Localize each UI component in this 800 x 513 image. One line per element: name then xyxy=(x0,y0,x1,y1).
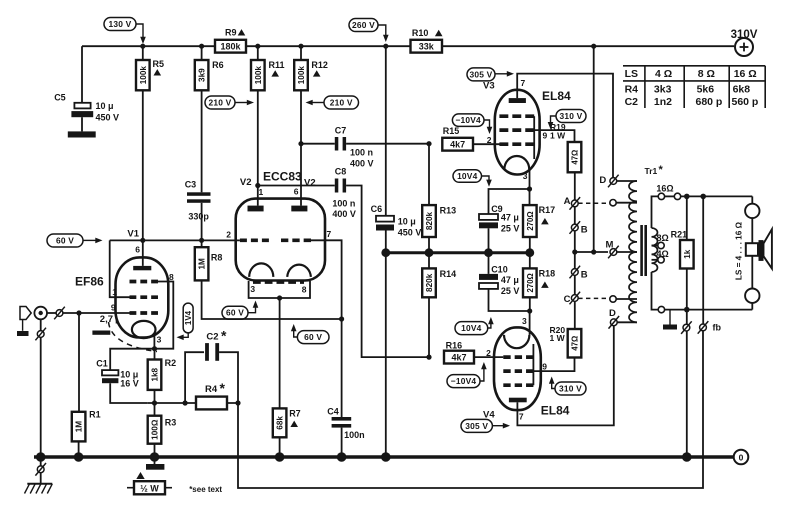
tube V4 grid g3 dashes xyxy=(503,383,533,387)
input plug symbol xyxy=(20,307,31,320)
wire V1 pin 8 to cathode node xyxy=(155,282,174,349)
tube V2 anode bar left pin 1 xyxy=(248,206,264,212)
connector secondary bottom xyxy=(658,306,664,312)
node R7 at bus xyxy=(275,452,285,462)
table LS R4 C2 values xyxy=(623,65,765,67)
svg-text:100 n: 100 n xyxy=(332,199,355,209)
wire C8 line from V2 pin1 xyxy=(258,185,335,187)
svg-text:C8: C8 xyxy=(335,167,347,177)
wire B to C xyxy=(574,275,576,294)
label 60 V at pin7 line xyxy=(297,331,329,344)
tube V2 heater dashes xyxy=(253,281,304,284)
svg-text:1: 1 xyxy=(112,287,117,297)
node R4 C2 right / feedback xyxy=(235,400,240,405)
svg-text:16 V: 16 V xyxy=(120,379,139,389)
svg-text:2: 2 xyxy=(226,229,231,239)
input jack socket xyxy=(34,307,47,320)
svg-text:D: D xyxy=(609,308,616,319)
resistor R2 1k8 xyxy=(154,349,156,360)
label -10V4 at V4 grid xyxy=(447,375,480,388)
svg-text:V1: V1 xyxy=(127,229,139,240)
wire V4 anode pin 7 to D xyxy=(517,326,613,426)
svg-text:25 V: 25 V xyxy=(501,224,520,234)
svg-text:25 V: 25 V xyxy=(501,286,520,296)
resistor R7 68k xyxy=(273,408,287,437)
wire V3 cathode to C9 xyxy=(489,189,530,214)
resistor R20 47 ohm 1W xyxy=(568,329,582,358)
node grid / R1 xyxy=(76,310,81,315)
svg-text:C4: C4 xyxy=(327,407,339,417)
svg-text:C: C xyxy=(564,294,571,305)
wire C to R20 xyxy=(574,301,576,329)
wire ground line down to bus xyxy=(385,253,387,457)
svg-text:½ W: ½ W xyxy=(140,484,159,494)
svg-text:R21: R21 xyxy=(671,229,688,239)
svg-text:1k8: 1k8 xyxy=(151,367,160,381)
wire C7 to R13 node xyxy=(346,143,429,145)
svg-text:R4: R4 xyxy=(205,384,218,395)
svg-text:C10: C10 xyxy=(491,265,508,275)
tube V4 cathode arc xyxy=(504,335,529,348)
tube V1 grid dashes pin 9 row xyxy=(130,311,159,315)
wire V1 pin 1 up to anode node xyxy=(110,240,130,297)
connector C xyxy=(571,295,578,302)
wire primary bottom to D xyxy=(617,321,637,323)
node 260V rail junction xyxy=(383,44,388,49)
node V2 pin6 / C7 junction xyxy=(298,141,303,146)
node C2 left xyxy=(183,400,188,405)
resistor R5 100k xyxy=(142,46,144,60)
svg-text:LS: LS xyxy=(625,68,638,80)
svg-text:210 V: 210 V xyxy=(209,98,232,108)
svg-text:8: 8 xyxy=(169,272,174,282)
svg-text:47Ω: 47Ω xyxy=(571,150,580,165)
svg-text:100k: 100k xyxy=(254,66,263,85)
svg-text:R17: R17 xyxy=(539,205,556,215)
resistor R12 100k xyxy=(300,46,302,60)
svg-text:10 μ: 10 μ xyxy=(398,217,416,227)
tube V2 grid dashes left xyxy=(240,238,269,242)
svg-text:3: 3 xyxy=(523,171,528,181)
svg-text:M: M xyxy=(606,239,614,250)
svg-text:3k9: 3k9 xyxy=(198,68,207,82)
connector D upper xyxy=(610,178,617,185)
svg-text:V3: V3 xyxy=(483,81,495,92)
wire R12 to V2 anode pin 6 xyxy=(300,90,302,143)
node V3 cathode junction xyxy=(527,186,532,191)
connector A xyxy=(571,200,578,207)
svg-text:7: 7 xyxy=(327,229,332,239)
node V1 anode / R5 xyxy=(140,238,145,243)
capacitor C2* feedback xyxy=(185,352,204,403)
svg-text:10V4: 10V4 xyxy=(457,171,478,181)
ground bar pins 1 2 7 of V1 xyxy=(92,331,110,335)
resistor R3 100 ohm xyxy=(154,403,156,416)
svg-text:*: * xyxy=(220,380,226,396)
svg-text:R1: R1 xyxy=(89,410,101,420)
svg-text:R11: R11 xyxy=(269,60,285,70)
resistor R19 47 ohm 1W xyxy=(568,142,582,172)
connector M center tap xyxy=(610,249,617,256)
wire sleeve to ground bus xyxy=(40,337,42,457)
tube V2 grid dashes right xyxy=(281,238,311,242)
svg-text:60 V: 60 V xyxy=(56,236,74,246)
svg-text:10V4: 10V4 xyxy=(461,323,482,333)
label 210 V right xyxy=(324,96,359,109)
svg-text:R12: R12 xyxy=(311,60,328,70)
svg-text:130 V: 130 V xyxy=(109,19,132,29)
wire C1 to bottom line xyxy=(110,383,148,403)
wire R6 to C3 xyxy=(201,90,203,192)
svg-text:310 V: 310 V xyxy=(559,384,582,394)
earth ground symbol xyxy=(27,483,52,485)
tube V1 cathode loop pin 3 xyxy=(132,321,156,338)
svg-text:4 Ω: 4 Ω xyxy=(655,68,672,80)
wire B+ top rail xyxy=(82,45,734,47)
node R14 at V4 grid line xyxy=(426,355,431,360)
tube V1 grid dashes g1 pin 1 row xyxy=(130,295,159,299)
svg-text:100k: 100k xyxy=(139,66,148,85)
svg-text:180k: 180k xyxy=(220,41,241,51)
tube V2 cathode arc right pin 8 xyxy=(287,265,311,277)
svg-text:6: 6 xyxy=(294,187,299,197)
svg-text:450 V: 450 V xyxy=(96,113,120,123)
node V1 cathode junction xyxy=(152,346,157,351)
svg-text:R14: R14 xyxy=(440,269,457,279)
svg-text:450 V: 450 V xyxy=(398,228,422,238)
wire bottom line xyxy=(148,402,238,404)
node V2 pin1 / C8 junction xyxy=(255,183,260,188)
tube V3 EL84 envelope xyxy=(495,90,540,175)
resistor R16 4k7 xyxy=(444,351,474,364)
svg-text:8Ω: 8Ω xyxy=(657,233,669,243)
svg-text:4k7: 4k7 xyxy=(450,139,465,149)
transformer primary winding xyxy=(629,181,637,322)
svg-text:R8: R8 xyxy=(211,253,223,263)
svg-text:210 V: 210 V xyxy=(330,98,353,108)
svg-text:1V4: 1V4 xyxy=(184,310,193,325)
tube V4 EL84 envelope xyxy=(494,327,541,410)
resistor R1 1M xyxy=(78,313,80,412)
connector slash input signal xyxy=(56,310,63,317)
svg-text:9: 9 xyxy=(543,131,548,141)
svg-text:4Ω: 4Ω xyxy=(657,249,669,259)
svg-text:7: 7 xyxy=(521,78,526,88)
svg-text:R3: R3 xyxy=(165,418,177,428)
svg-text:R2: R2 xyxy=(165,358,177,368)
node rail junction R11 xyxy=(255,44,260,49)
wire B to M node xyxy=(574,231,576,252)
resistor R11 100k xyxy=(257,46,259,60)
svg-text:100k: 100k xyxy=(297,66,306,85)
label 60 V at V2 cathode xyxy=(222,306,248,319)
tube V4 grid g1 dashes xyxy=(503,355,533,359)
node V4 cathode junction xyxy=(527,308,532,313)
svg-text:*: * xyxy=(221,328,227,344)
resistor R15 4k7 xyxy=(442,138,473,151)
chassis ground at secondary xyxy=(669,310,671,325)
tube V3 anode bar pin 7 xyxy=(509,98,526,103)
label -10V4 at V3 grid xyxy=(452,114,484,127)
tube V3 g3 to cathode link xyxy=(533,116,535,159)
wire V1 cathode stem xyxy=(153,333,155,348)
connector B lower xyxy=(571,269,578,276)
svg-text:R7: R7 xyxy=(289,409,301,419)
resistor R9 180k xyxy=(215,40,246,53)
node ground line R17 R18 xyxy=(525,248,534,257)
svg-text:9: 9 xyxy=(542,361,547,371)
node R21 bottom xyxy=(684,307,690,313)
wire R5 to V1 anode xyxy=(142,90,144,240)
tube V2 ECC83 envelope xyxy=(236,199,325,281)
tube V3 cathode arc xyxy=(504,156,529,169)
tube V4 anode bar pin 7 xyxy=(509,398,527,403)
svg-text:680 p: 680 p xyxy=(696,96,723,108)
capacitor C7 100n 400V xyxy=(335,137,339,151)
node rail junction R6 xyxy=(199,44,204,49)
node C6 at bus xyxy=(381,452,391,462)
wire bottom line to speaker xyxy=(665,309,753,311)
resistor R4* xyxy=(196,397,227,410)
node R21 ground at bus xyxy=(682,452,692,462)
svg-text:6: 6 xyxy=(135,244,140,254)
svg-text:C6: C6 xyxy=(371,204,383,214)
wire local ground line xyxy=(386,251,530,254)
wire secondary top to 16 ohm xyxy=(652,196,659,228)
svg-text:V2: V2 xyxy=(304,178,316,189)
wire V2 pin6 to C7 xyxy=(301,143,335,145)
svg-text:R13: R13 xyxy=(440,206,457,216)
label 310 V at V3 screen xyxy=(556,110,586,123)
svg-text:47 μ: 47 μ xyxy=(501,275,519,285)
svg-text:270Ω: 270Ω xyxy=(526,211,535,230)
wire V2 cathode to R7 xyxy=(279,298,281,408)
connector slash input sleeve xyxy=(37,331,44,338)
legend half watt resistor xyxy=(136,472,144,479)
resistor R10 33k xyxy=(411,40,443,53)
svg-text:820k: 820k xyxy=(425,211,434,230)
connector 16 ohm pair xyxy=(658,193,664,199)
svg-text:LS = 4 . . . 16 Ω: LS = 4 . . . 16 Ω xyxy=(735,221,744,280)
node rail junction to M center tap xyxy=(591,44,596,49)
svg-text:16 Ω: 16 Ω xyxy=(734,68,757,80)
svg-text:33k: 33k xyxy=(419,41,435,51)
svg-text:100n: 100n xyxy=(344,430,365,440)
node C4 at bus xyxy=(337,452,347,462)
wire V4 pin 9 screen xyxy=(531,358,574,372)
svg-text:820k: 820k xyxy=(425,273,434,292)
svg-text:310 V: 310 V xyxy=(560,111,583,121)
svg-text:7: 7 xyxy=(519,411,524,421)
svg-text:400 V: 400 V xyxy=(332,209,356,219)
wire junction to C4 xyxy=(341,319,343,417)
node R2 bottom xyxy=(152,400,157,405)
svg-text:V2: V2 xyxy=(240,177,252,188)
wire V3 anode pin 7 to D xyxy=(517,74,613,178)
node feedback tap xyxy=(700,194,706,200)
svg-text:1 W: 1 W xyxy=(550,333,566,343)
svg-text:100Ω: 100Ω xyxy=(151,419,160,440)
svg-text:R4: R4 xyxy=(625,84,639,96)
resistor R6 3k9 xyxy=(201,46,203,60)
link C dashed xyxy=(578,297,610,299)
svg-text:B: B xyxy=(581,269,588,280)
transformer secondary winding xyxy=(652,228,658,272)
wire 16 ohm line to speaker xyxy=(681,195,753,197)
svg-text:−10V4: −10V4 xyxy=(455,115,481,125)
wire V2 cathode pins 3 8 bracket xyxy=(249,281,310,298)
svg-text:47Ω: 47Ω xyxy=(571,336,580,351)
svg-text:60 V: 60 V xyxy=(304,332,322,342)
speaker terminal top xyxy=(745,204,759,218)
wire D to primary top xyxy=(617,180,637,182)
svg-text:1M: 1M xyxy=(198,258,207,270)
tube V2 cathode arc left pin 3 xyxy=(249,263,273,277)
wire V3 pin 9 screen xyxy=(534,130,574,142)
node R1 at bus xyxy=(74,452,84,462)
connector D lower xyxy=(610,319,617,326)
tube V4 grid g2 dashes xyxy=(503,369,533,373)
svg-text:C1: C1 xyxy=(96,359,108,369)
svg-text:B: B xyxy=(581,225,588,236)
svg-text:EF86: EF86 xyxy=(75,274,104,288)
node input sleeve at bus xyxy=(36,452,46,462)
tube V4 g3 to cathode link xyxy=(532,344,534,385)
node 130V rail junction R5 xyxy=(140,44,145,49)
svg-text:C2: C2 xyxy=(206,332,218,343)
capacitor C10 47u 25V xyxy=(488,253,490,274)
wire M line xyxy=(575,251,608,253)
svg-text:9: 9 xyxy=(111,302,116,312)
wire V1 anode line to V2 grid pin 2 xyxy=(110,239,240,241)
wire V2 anode pin1 stem xyxy=(257,186,259,206)
tube V1 anode bar pin 6 xyxy=(133,266,151,270)
wire 260V down to C6 xyxy=(385,46,387,216)
svg-text:C3: C3 xyxy=(185,180,197,190)
svg-text:16Ω: 16Ω xyxy=(656,184,673,194)
svg-text:400 V: 400 V xyxy=(350,159,374,169)
node V1 anode line / R8 C3 xyxy=(199,238,204,243)
resistor R14 820k xyxy=(428,253,430,269)
node ground line C9 C10 xyxy=(484,248,493,257)
connector slash fb xyxy=(700,324,707,331)
svg-text:2: 2 xyxy=(487,135,492,145)
svg-text:330p: 330p xyxy=(188,212,209,222)
wire V2 pin 7 down xyxy=(311,240,342,319)
svg-text:1M: 1M xyxy=(75,421,84,433)
svg-text:R6: R6 xyxy=(212,60,224,70)
connector slash below bus xyxy=(40,457,42,466)
node ground line C6 xyxy=(381,248,390,257)
capacitor C4 100n xyxy=(332,417,352,421)
connector slash R21 ground xyxy=(686,310,688,324)
label 260 V xyxy=(349,19,378,32)
speaker symbol xyxy=(751,218,753,243)
wire V2 pin 6 stem xyxy=(300,144,302,206)
label 305 V at V4 xyxy=(461,419,492,432)
svg-text:3: 3 xyxy=(522,316,527,326)
svg-text:6k8: 6k8 xyxy=(733,84,751,96)
node ladder at M wire xyxy=(572,249,577,254)
wire secondary bottom xyxy=(652,272,659,310)
svg-text:260 V: 260 V xyxy=(352,20,375,30)
label 10V4 at V4 cathode xyxy=(455,322,488,335)
svg-text:1 W: 1 W xyxy=(550,130,566,140)
capacitor C3 330p xyxy=(187,192,211,196)
wire R15 to V3 pin 2 xyxy=(473,143,500,145)
speaker terminal bottom xyxy=(751,256,753,289)
wire V3 cathode stem xyxy=(529,169,531,189)
node pin7 R8 C4 junction xyxy=(339,316,344,321)
wire C8 to V4 grid line xyxy=(346,186,429,358)
resistor R21 1k xyxy=(686,196,688,240)
svg-text:C5: C5 xyxy=(54,93,66,103)
label 310 V at V4 screen xyxy=(555,382,586,395)
wire feedback line xyxy=(702,196,704,323)
svg-text:R5: R5 xyxy=(153,59,165,69)
tube V3 grid g3 dashes xyxy=(499,114,534,118)
node V2 cathode junction xyxy=(277,295,282,300)
wire R19 to A xyxy=(574,172,576,200)
tap 8 ohm xyxy=(652,245,658,247)
label 10V4 at V3 cathode xyxy=(453,170,482,183)
connector link lower tap xyxy=(610,296,616,302)
svg-text:ECC83: ECC83 xyxy=(263,170,302,184)
capacitor C6 10u 450V xyxy=(376,216,394,222)
svg-text:R16: R16 xyxy=(446,340,463,350)
tube V1 shield dashed arc xyxy=(109,322,158,352)
svg-text:A: A xyxy=(564,196,571,207)
svg-text:1n2: 1n2 xyxy=(654,96,672,108)
svg-text:3k3: 3k3 xyxy=(654,84,672,96)
capacitor C5 10u 450V xyxy=(81,46,83,102)
chassis bar below R3 xyxy=(154,457,156,464)
transformer core xyxy=(640,225,643,276)
svg-text:60 V: 60 V xyxy=(226,308,244,318)
svg-text:305 V: 305 V xyxy=(465,421,488,431)
wire jack sleeve down xyxy=(40,319,42,330)
link A dashed xyxy=(578,202,610,204)
svg-text:R18: R18 xyxy=(539,269,556,279)
svg-text:100 n: 100 n xyxy=(350,148,373,158)
node M wire junction xyxy=(591,249,596,254)
svg-text:270Ω: 270Ω xyxy=(526,273,535,292)
capacitor C9 47u 25V xyxy=(479,214,498,220)
svg-text:*see text: *see text xyxy=(189,485,222,494)
wire C3 to V1 anode node xyxy=(201,203,203,241)
svg-text:47 μ: 47 μ xyxy=(501,213,519,223)
tube V3 grid g2 dashes xyxy=(499,128,534,132)
svg-text:3: 3 xyxy=(250,284,255,294)
svg-text:−10V4: −10V4 xyxy=(451,376,477,386)
svg-text:C2: C2 xyxy=(625,96,639,108)
tube V1 grid dashes g2 pin 8 row xyxy=(130,280,159,284)
tube V3 grid g1 dashes xyxy=(499,142,534,146)
wire R8 to V2 grid pin 7 line xyxy=(202,280,342,319)
svg-text:8 Ω: 8 Ω xyxy=(698,68,715,80)
svg-text:8: 8 xyxy=(302,285,307,295)
wire feedback to R4 node xyxy=(238,331,703,488)
svg-text:68k: 68k xyxy=(276,416,285,430)
label 305 V at V3 xyxy=(467,68,495,81)
svg-text:EL84: EL84 xyxy=(541,404,570,418)
node ground line R13 R14 xyxy=(425,248,434,257)
svg-text:4k7: 4k7 xyxy=(451,352,466,362)
svg-text:3: 3 xyxy=(157,334,162,344)
svg-text:Tr1: Tr1 xyxy=(645,166,658,176)
connector link upper tap xyxy=(610,200,616,206)
svg-text:305 V: 305 V xyxy=(470,69,493,79)
